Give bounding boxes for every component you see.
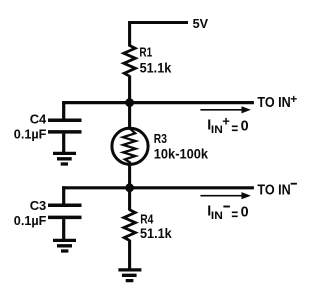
svg-text:0: 0 bbox=[241, 118, 249, 134]
capacitor C3 top stub bbox=[62, 186, 65, 204]
current arrow IIN+ bbox=[200, 106, 251, 113]
svg-text:C4: C4 bbox=[30, 112, 47, 127]
svg-text:+: + bbox=[290, 92, 297, 106]
svg-text:51.1k: 51.1k bbox=[140, 226, 172, 241]
wire top node horizontal (C4 corner to TO IN+) bbox=[62, 101, 254, 104]
svg-text:0.1µF: 0.1µF bbox=[14, 213, 47, 228]
svg-text:10k-100k: 10k-100k bbox=[154, 147, 209, 162]
svg-text:R3: R3 bbox=[154, 131, 167, 146]
svg-text:R4: R4 bbox=[140, 212, 154, 227]
svg-text:+: + bbox=[222, 114, 230, 129]
svg-text:=: = bbox=[231, 122, 238, 138]
wire top node down to R3 circle bbox=[128, 103, 131, 128]
capacitor C3 plates bbox=[48, 205, 82, 217]
svg-text:TO IN: TO IN bbox=[257, 182, 290, 198]
svg-text:C3: C3 bbox=[30, 198, 47, 213]
svg-text:IN: IN bbox=[211, 210, 223, 222]
wire R3 bottom to bottom node bbox=[128, 164, 131, 188]
capacitor C4 bottom stub bbox=[62, 134, 65, 152]
node junction dot (bottom) bbox=[125, 183, 134, 192]
svg-text:0.1µF: 0.1µF bbox=[14, 127, 47, 142]
node junction dot (top) bbox=[125, 98, 134, 107]
capacitor C3 bottom stub bbox=[62, 219, 65, 239]
svg-text:5V: 5V bbox=[193, 16, 209, 31]
wire R1 bottom to top node bbox=[128, 76, 131, 104]
svg-text:IN: IN bbox=[211, 124, 223, 136]
svg-text:R1: R1 bbox=[139, 45, 152, 60]
current arrow IIN- bbox=[200, 192, 251, 199]
wire bottom node down to R4 bbox=[128, 188, 131, 211]
resistor R4 zigzag bbox=[124, 210, 136, 241]
wire R4 bottom to ground bbox=[128, 240, 131, 269]
svg-text:=: = bbox=[231, 208, 238, 224]
capacitor C4 plates bbox=[48, 120, 82, 132]
ground symbol under C4 bbox=[53, 153, 76, 164]
superscript minus of TO IN- bbox=[291, 183, 297, 185]
wire bottom node horizontal (C3 corner to TO IN-) bbox=[62, 186, 254, 189]
svg-text:51.1k: 51.1k bbox=[140, 60, 172, 75]
ground symbol under C3 bbox=[53, 240, 76, 251]
superscript minus of IIN- bbox=[223, 206, 230, 208]
svg-text:TO IN: TO IN bbox=[257, 95, 290, 111]
wire 5V supply feed (horizontal + corner down to R1) bbox=[130, 23, 188, 47]
photoresistor R3 internal zigzag bbox=[123, 128, 136, 166]
svg-text:0: 0 bbox=[241, 204, 249, 220]
photoresistor R3 circle bbox=[112, 128, 148, 164]
resistor R1 zigzag bbox=[124, 46, 136, 77]
ground symbol under R4 bbox=[118, 270, 141, 281]
capacitor C4 top stub bbox=[62, 101, 65, 119]
